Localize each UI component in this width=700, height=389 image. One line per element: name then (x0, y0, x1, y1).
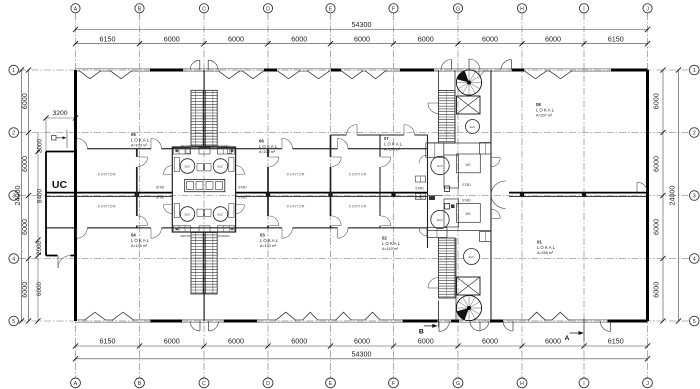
svg-text:A: A (565, 335, 570, 342)
svg-text:6000: 6000 (545, 337, 561, 346)
svg-text:6000: 6000 (291, 337, 307, 346)
svg-text:6000: 6000 (651, 282, 660, 298)
svg-text:2: 2 (12, 131, 15, 137)
svg-text:2000: 2000 (37, 138, 44, 153)
svg-text:STÄD: STÄD (238, 195, 247, 199)
svg-text:STÄD: STÄD (415, 195, 424, 199)
svg-text:PENTRY: PENTRY (181, 234, 192, 238)
svg-text:6000: 6000 (545, 34, 561, 43)
svg-text:01: 01 (537, 240, 542, 245)
svg-text:1: 1 (12, 68, 15, 74)
svg-text:08: 08 (536, 102, 541, 107)
svg-text:07: 07 (384, 136, 389, 141)
svg-text:STÄD: STÄD (238, 185, 247, 189)
svg-text:54300: 54300 (352, 350, 372, 359)
svg-text:6000: 6000 (164, 337, 180, 346)
svg-text:A=136 m²: A=136 m² (384, 147, 401, 151)
svg-text:6150: 6150 (608, 337, 624, 346)
svg-text:A=143 m²: A=143 m² (260, 244, 277, 248)
svg-text:FÖRRÅD: FÖRRÅD (218, 233, 230, 238)
svg-text:8400: 8400 (37, 188, 44, 203)
svg-text:D: D (266, 6, 270, 12)
svg-text:EvC: EvC (185, 213, 192, 217)
svg-text:L O K A L: L O K A L (536, 107, 555, 112)
svg-text:A=207 m²: A=207 m² (536, 113, 553, 117)
svg-text:A: A (74, 381, 78, 387)
svg-text:EvC: EvC (469, 255, 476, 259)
svg-text:6000: 6000 (418, 34, 434, 43)
svg-text:E: E (329, 6, 333, 12)
svg-text:6000: 6000 (354, 337, 370, 346)
svg-text:STÄD: STÄD (462, 198, 471, 202)
svg-text:G: G (456, 6, 460, 12)
svg-text:B: B (419, 329, 424, 336)
svg-text:L O K A L: L O K A L (259, 144, 278, 149)
svg-text:KONTOR: KONTOR (98, 173, 116, 177)
svg-text:A=103 m²: A=103 m² (131, 143, 148, 147)
svg-text:STÄD: STÄD (156, 195, 165, 199)
svg-text:EvC: EvC (437, 164, 444, 168)
svg-text:WC: WC (466, 212, 472, 216)
svg-text:54300: 54300 (352, 20, 372, 29)
svg-text:L O K A L: L O K A L (131, 238, 150, 243)
svg-text:STÄD: STÄD (415, 186, 424, 190)
svg-text:KONTOR: KONTOR (287, 205, 305, 209)
svg-text:6150: 6150 (608, 34, 624, 43)
svg-text:4: 4 (693, 257, 696, 263)
svg-text:6000: 6000 (651, 93, 660, 109)
svg-text:6000: 6000 (20, 282, 29, 298)
svg-text:6000: 6000 (20, 93, 29, 109)
svg-text:A=143 m²: A=143 m² (382, 247, 399, 251)
svg-text:05: 05 (131, 132, 136, 137)
svg-text:B: B (138, 6, 142, 12)
svg-text:H: H (520, 381, 524, 387)
svg-text:WC: WC (466, 163, 472, 167)
svg-text:6000: 6000 (228, 337, 244, 346)
svg-text:KONTOR: KONTOR (349, 205, 367, 209)
svg-text:KONTOR: KONTOR (98, 205, 116, 209)
svg-text:J: J (646, 6, 649, 12)
svg-text:6000: 6000 (20, 156, 29, 172)
svg-text:6000: 6000 (482, 337, 498, 346)
svg-text:2000: 2000 (36, 240, 43, 255)
svg-text:06: 06 (259, 139, 264, 144)
svg-text:6150: 6150 (100, 337, 116, 346)
svg-text:I: I (583, 6, 584, 12)
svg-text:F: F (392, 6, 395, 12)
svg-text:G: G (456, 381, 460, 387)
svg-text:E: E (329, 381, 333, 387)
svg-text:D: D (266, 381, 270, 387)
svg-text:B: B (138, 381, 142, 387)
svg-text:1: 1 (693, 68, 696, 74)
svg-text:6000: 6000 (651, 219, 660, 235)
svg-text:6000: 6000 (228, 34, 244, 43)
svg-text:4: 4 (12, 257, 15, 263)
svg-text:A: A (74, 6, 78, 12)
svg-text:EvC: EvC (218, 165, 225, 169)
svg-text:3: 3 (693, 194, 696, 200)
svg-text:L O K A L: L O K A L (131, 137, 150, 142)
svg-text:6000: 6000 (651, 156, 660, 172)
svg-text:L O K A L: L O K A L (384, 141, 403, 146)
svg-text:A=256 m²: A=256 m² (537, 251, 554, 255)
svg-text:A=105 m²: A=105 m² (259, 150, 276, 154)
svg-text:2: 2 (693, 131, 696, 137)
svg-text:02: 02 (382, 236, 387, 241)
svg-text:6000: 6000 (164, 34, 180, 43)
svg-text:L O K A L: L O K A L (537, 245, 556, 250)
svg-text:3200: 3200 (52, 110, 67, 117)
svg-text:6000: 6000 (291, 34, 307, 43)
svg-text:6000: 6000 (418, 337, 434, 346)
svg-text:EvC: EvC (185, 165, 192, 169)
svg-text:STÄD: STÄD (462, 183, 471, 187)
svg-text:24000: 24000 (668, 186, 677, 206)
svg-text:STÄD: STÄD (156, 185, 165, 189)
svg-text:L O K A L: L O K A L (382, 241, 401, 246)
svg-text:UC: UC (52, 179, 68, 191)
svg-text:6000: 6000 (20, 219, 29, 235)
svg-text:J: J (646, 381, 649, 387)
svg-text:KONTOR: KONTOR (349, 173, 367, 177)
svg-text:F: F (392, 381, 395, 387)
svg-text:EvC: EvC (470, 125, 477, 129)
svg-text:A=145 m²: A=145 m² (131, 244, 148, 248)
svg-text:04: 04 (131, 233, 136, 238)
svg-text:24000: 24000 (13, 186, 22, 206)
svg-text:5: 5 (693, 319, 696, 325)
svg-text:I: I (583, 381, 584, 387)
svg-text:6000: 6000 (36, 281, 43, 296)
svg-text:5: 5 (12, 319, 15, 325)
svg-text:H: H (520, 6, 524, 12)
svg-text:6000: 6000 (482, 34, 498, 43)
svg-text:KONTOR: KONTOR (287, 173, 305, 177)
svg-text:6000: 6000 (354, 34, 370, 43)
svg-text:C: C (202, 381, 206, 387)
svg-text:EvC: EvC (218, 213, 225, 217)
svg-text:03: 03 (260, 233, 265, 238)
svg-text:L O K A L: L O K A L (260, 238, 279, 243)
svg-text:C: C (202, 6, 206, 12)
svg-text:6150: 6150 (100, 34, 116, 43)
svg-text:EvC: EvC (437, 218, 444, 222)
